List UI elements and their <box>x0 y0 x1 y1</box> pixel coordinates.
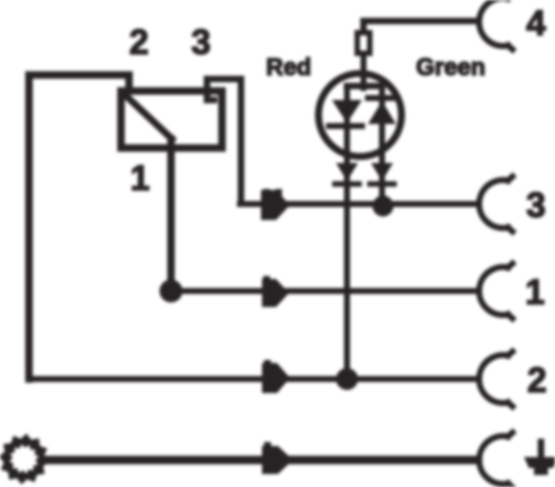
connector pin arrow on shield line <box>262 442 293 474</box>
socket contact terminal 3 <box>479 177 512 232</box>
svg-text:Red: Red <box>266 54 311 81</box>
LED D1 Red <box>329 100 362 126</box>
node: junction dot on terminal 2 line <box>336 368 358 390</box>
connector pin arrow on terminal 3 line <box>261 189 290 220</box>
wire: pin 2 loop (left side) <box>29 75 129 379</box>
node: junction dot pin 1 <box>160 280 183 303</box>
wire: terminal 3 line <box>240 201 478 207</box>
LED D2 Green <box>368 98 397 124</box>
knurled nut circle (shield) <box>0 434 49 485</box>
ground symbol <box>524 442 555 475</box>
svg-text:2: 2 <box>129 23 148 62</box>
switch box S1 <box>121 91 222 148</box>
socket contact terminal 1 <box>479 264 512 319</box>
wire: shield line (bottom) <box>46 456 478 465</box>
connector pin arrow on terminal 2 line <box>262 360 290 393</box>
svg-text:2: 2 <box>527 361 546 400</box>
svg-text:3: 3 <box>191 23 210 62</box>
wire: pin 3 stub with contact tick <box>207 79 241 202</box>
svg-text:1: 1 <box>130 159 149 198</box>
wire: terminal 4 feed from top <box>364 21 479 33</box>
svg-text:4: 4 <box>526 4 546 43</box>
wire: resistor to LED circle <box>361 54 367 88</box>
connector pin arrow on terminal 1 line <box>262 276 289 307</box>
svg-text:3: 3 <box>526 186 545 225</box>
wire: right LED branch down to terminal 3 line <box>379 86 385 205</box>
resistor R1 <box>357 33 370 54</box>
wire: tee bar inside circle <box>347 83 382 90</box>
socket contact terminal 2 <box>479 352 512 407</box>
socket contact terminal 4 <box>479 0 512 50</box>
wire: pin 1 from switch <box>167 139 175 291</box>
wire: terminal 2 line <box>29 376 478 382</box>
node: junction dot on terminal 3 line <box>373 196 394 217</box>
LED housing circle <box>319 74 402 157</box>
wire: left LED branch down to terminal 2 line <box>344 86 350 379</box>
svg-text:1: 1 <box>525 273 544 312</box>
socket contact shield <box>479 433 512 487</box>
svg-text:Green: Green <box>416 54 485 81</box>
diode D3 (below circle, left) <box>335 163 359 184</box>
wire: terminal 1 line <box>171 288 478 294</box>
switch contact diagonal <box>123 93 172 139</box>
diode D4 (below circle, right) <box>370 163 394 184</box>
